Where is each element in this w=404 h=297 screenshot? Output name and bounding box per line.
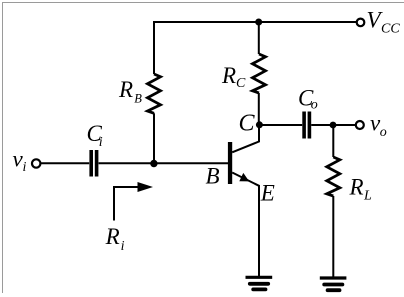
- svg-text:C: C: [239, 111, 256, 137]
- svg-text:i: i: [99, 135, 103, 150]
- svg-text:i: i: [121, 239, 125, 254]
- svg-text:R: R: [221, 63, 236, 88]
- svg-text:B: B: [206, 163, 220, 188]
- svg-text:B: B: [134, 91, 142, 105]
- svg-text:i: i: [23, 160, 27, 175]
- svg-text:R: R: [349, 175, 364, 200]
- svg-text:R: R: [118, 77, 133, 102]
- svg-text:E: E: [260, 181, 275, 206]
- svg-text:o: o: [380, 125, 387, 140]
- svg-text:R: R: [105, 224, 120, 249]
- svg-text:CC: CC: [381, 22, 400, 37]
- svg-text:C: C: [236, 76, 246, 91]
- svg-text:L: L: [363, 188, 372, 203]
- svg-text:o: o: [311, 97, 318, 112]
